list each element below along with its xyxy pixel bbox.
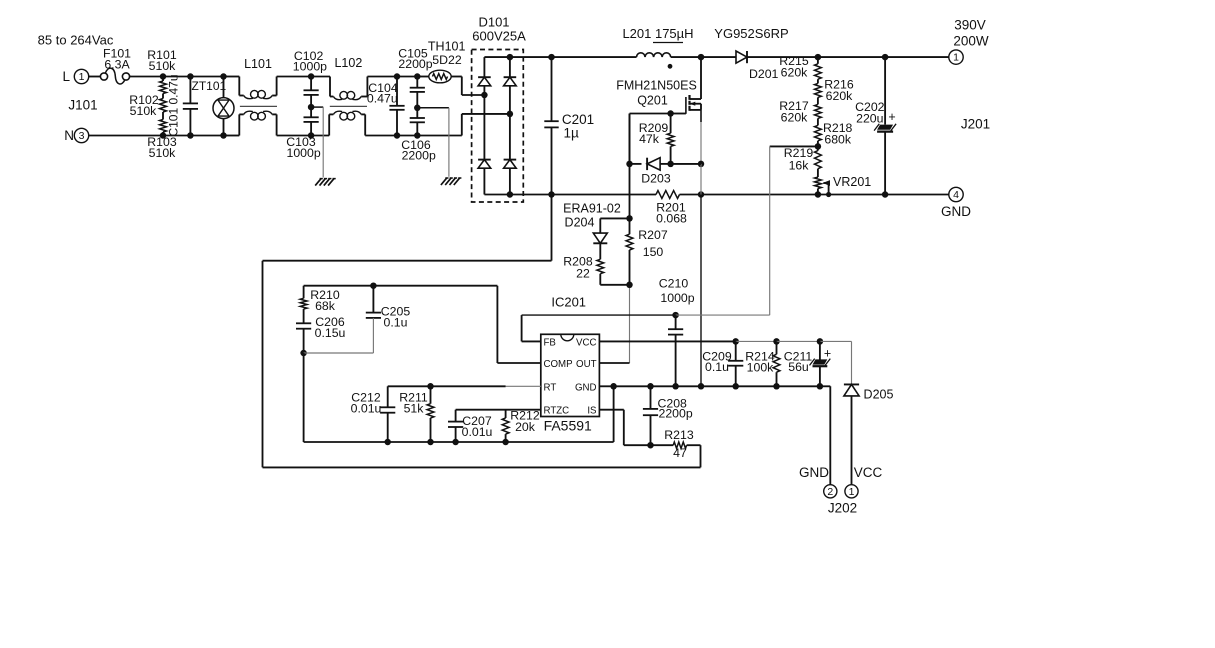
svg-text:1: 1	[79, 71, 85, 83]
wire current sense loop	[263, 195, 701, 468]
svg-text:2200p: 2200p	[402, 149, 436, 163]
electrolytic capacitor C211 56u	[784, 341, 831, 386]
svg-text:J201: J201	[961, 117, 990, 132]
trimmer VR201	[815, 169, 872, 195]
svg-text:C101 0.47u: C101 0.47u	[167, 74, 181, 136]
capacitor C205 0.1u	[304, 286, 411, 353]
earth ground from C105/C106 midpoint	[417, 108, 461, 185]
capacitor C206 0.15u	[296, 309, 346, 356]
capacitor C209 0.1u	[702, 341, 743, 386]
svg-text:VR201: VR201	[833, 175, 871, 189]
svg-text:68k: 68k	[315, 299, 336, 313]
svg-text:Q201: Q201	[637, 94, 668, 108]
earth ground from C102/C103 midpoint	[311, 107, 336, 186]
svg-text:GND: GND	[799, 465, 829, 480]
resistor R207 150	[626, 218, 668, 288]
svg-text:L201 175µH: L201 175µH	[622, 26, 693, 41]
svg-text:0.1u: 0.1u	[705, 360, 729, 374]
inductor L201 175uH	[622, 26, 693, 69]
svg-text:ERA91-02: ERA91-02	[563, 202, 621, 216]
diode D205	[844, 384, 894, 484]
svg-text:510k: 510k	[130, 104, 158, 118]
capacitor C106 2200p	[401, 108, 436, 163]
svg-text:510k: 510k	[149, 59, 177, 73]
voltage divider resistor R218 680k	[815, 118, 853, 149]
connector J101 terminal 3 (N)	[64, 98, 97, 144]
svg-text:1000p: 1000p	[660, 291, 694, 305]
IC201 FA5591 controller	[541, 295, 600, 434]
svg-text:+: +	[824, 347, 831, 361]
svg-text:D204: D204	[565, 216, 595, 230]
svg-text:600V25A: 600V25A	[472, 29, 526, 44]
resistor R208 22	[563, 244, 629, 285]
wire OUT riser / gate drive net	[599, 114, 632, 364]
svg-text:+: +	[888, 110, 895, 124]
svg-text:RTZC: RTZC	[544, 406, 570, 417]
svg-text:200W: 200W	[953, 34, 989, 49]
fuse F101 6.3A	[100, 47, 131, 84]
svg-text:L102: L102	[334, 56, 362, 70]
svg-text:620k: 620k	[781, 66, 809, 80]
wire L net: J101-1 to bridge	[89, 73, 485, 95]
wire N net: J101-3 to bridge	[89, 114, 510, 139]
wire compensation ground branch	[304, 353, 617, 445]
resistor R214 100k	[745, 341, 780, 386]
svg-text:D201: D201	[749, 67, 779, 81]
common-mode choke L101	[239, 57, 277, 136]
svg-text:0.01u: 0.01u	[351, 402, 382, 416]
resistor R102 510k	[129, 93, 166, 118]
svg-text:FMH21N50ES: FMH21N50ES	[616, 79, 697, 93]
svg-text:R207: R207	[638, 228, 668, 242]
capacitor C210 1000p	[659, 277, 695, 387]
capacitor C212 0.01u	[351, 391, 396, 443]
svg-text:GND: GND	[575, 382, 597, 393]
svg-text:620k: 620k	[826, 89, 854, 103]
wire COMP net	[304, 282, 541, 363]
connector J201 terminal 1 output 390V 200W	[949, 18, 989, 65]
svg-text:1000p: 1000p	[286, 146, 320, 160]
svg-text:2200p: 2200p	[398, 57, 432, 71]
resistor R219 16k	[784, 146, 822, 173]
connector J202 terminal 1 VCC	[828, 465, 883, 516]
capacitor C105 2200p	[398, 47, 432, 112]
svg-text:RT: RT	[544, 382, 557, 393]
MOSFET Q201 FMH21N50ES	[616, 57, 701, 114]
svg-text:1µ: 1µ	[564, 126, 580, 141]
svg-text:D203: D203	[641, 171, 671, 185]
svg-text:1: 1	[953, 52, 959, 64]
svg-text:22: 22	[576, 267, 590, 281]
bridge wires and nodes	[481, 54, 513, 198]
bridge diode top-left	[478, 77, 491, 86]
svg-text:85 to 264Vac: 85 to 264Vac	[38, 33, 114, 48]
svg-text:51k: 51k	[404, 402, 425, 416]
connector J201 terminal 4 GND	[941, 117, 990, 220]
svg-text:4: 4	[953, 189, 959, 201]
bridge rectifier D101 600V25A dashed outline	[472, 15, 526, 203]
svg-text:47k: 47k	[639, 132, 660, 146]
svg-text:ZT101: ZT101	[192, 79, 227, 93]
capacitor C101 0.47u	[167, 74, 199, 136]
boost diode D201 YG952S6RP	[714, 26, 788, 81]
svg-text:IC201: IC201	[551, 295, 586, 310]
voltage divider resistor R216 620k	[815, 78, 854, 104]
bridge diode bottom-right	[504, 160, 517, 169]
svg-text:GND: GND	[941, 204, 971, 219]
wire RT net	[388, 383, 541, 407]
resistor R212 20k	[502, 409, 540, 443]
svg-text:FB: FB	[544, 337, 556, 348]
wire VCC rail	[599, 338, 851, 384]
label: input voltage range	[38, 33, 114, 48]
svg-text:VCC: VCC	[854, 465, 883, 480]
capacitor C103 1000p	[286, 107, 321, 160]
svg-text:COMP: COMP	[544, 359, 573, 370]
wire RTZC net	[456, 410, 541, 422]
capacitor C104 0.47u	[367, 77, 405, 136]
capacitor C201 1u	[544, 57, 594, 194]
svg-text:100k: 100k	[747, 361, 775, 375]
svg-text:L101: L101	[244, 57, 272, 71]
svg-text:620k: 620k	[781, 111, 809, 125]
svg-text:VCC: VCC	[576, 337, 596, 348]
svg-text:56u: 56u	[788, 360, 809, 374]
svg-text:220u: 220u	[856, 112, 884, 126]
svg-text:D101: D101	[478, 15, 509, 30]
svg-text:2200p: 2200p	[659, 407, 693, 421]
bridge diode top-right	[504, 77, 517, 86]
svg-text:0.01u: 0.01u	[462, 425, 493, 439]
capacitor C207 0.01u	[448, 414, 493, 442]
svg-text:2: 2	[827, 486, 833, 498]
resistor R211 51k	[399, 386, 434, 442]
svg-text:0.15u: 0.15u	[315, 326, 346, 340]
bridge diode bottom-left	[478, 160, 491, 169]
capacitor C208 2200p	[643, 386, 693, 445]
svg-text:20k: 20k	[515, 420, 536, 434]
svg-text:IS: IS	[587, 406, 597, 417]
svg-text:D205: D205	[864, 387, 894, 401]
wire IS net	[599, 410, 700, 449]
svg-text:L: L	[62, 69, 70, 84]
svg-text:0.1u: 0.1u	[384, 316, 408, 330]
svg-text:C210: C210	[659, 277, 689, 291]
connector J202 terminal 2 GND	[799, 465, 837, 498]
resistor R209 47k	[639, 114, 674, 168]
resistor R213 47	[664, 428, 694, 460]
svg-text:J101: J101	[68, 98, 97, 113]
thermistor TH101 5D22	[428, 40, 466, 83]
svg-text:5D22: 5D22	[432, 53, 462, 67]
svg-text:J202: J202	[828, 501, 857, 516]
voltage divider resistor R217 620k	[779, 97, 821, 124]
svg-text:510k: 510k	[149, 146, 177, 160]
svg-text:150: 150	[643, 245, 664, 259]
connector J101 terminal 1 (L)	[62, 69, 88, 84]
wire FB net	[522, 312, 770, 342]
wire gate net	[630, 110, 686, 164]
resistor R101 510k	[147, 48, 177, 94]
svg-text:FA5591: FA5591	[544, 418, 592, 434]
diode D203	[626, 158, 701, 186]
svg-text:YG952S6RP: YG952S6RP	[714, 26, 788, 41]
sense resistor R201 0.068	[656, 191, 687, 226]
svg-text:R213: R213	[664, 428, 694, 442]
wire DC+ rail	[510, 54, 949, 61]
wire GND rail	[599, 383, 830, 484]
svg-text:390V: 390V	[954, 18, 986, 33]
varistor ZT101	[192, 77, 235, 136]
svg-text:680k: 680k	[824, 133, 852, 147]
svg-text:0.47u: 0.47u	[367, 92, 398, 106]
svg-text:1000p: 1000p	[293, 60, 327, 74]
svg-text:0.068: 0.068	[656, 212, 687, 226]
svg-text:16k: 16k	[789, 159, 810, 173]
svg-text:1: 1	[849, 486, 855, 498]
svg-text:N: N	[64, 128, 74, 143]
wire source net	[698, 110, 705, 386]
resistor R103 510k	[147, 112, 177, 160]
svg-text:TH101: TH101	[428, 40, 466, 54]
wire DC- rail	[510, 191, 949, 198]
voltage divider resistor R215 620k	[779, 54, 821, 80]
capacitor C102 1000p	[293, 49, 327, 110]
svg-text:OUT: OUT	[576, 359, 597, 370]
resistor R210 68k	[300, 286, 340, 313]
wire feedback tap from divider	[770, 146, 818, 315]
electrolytic capacitor C202 220u	[855, 57, 896, 194]
diode D204 ERA91-02	[563, 202, 629, 244]
common-mode choke L102	[329, 56, 367, 136]
svg-text:3: 3	[79, 130, 85, 142]
